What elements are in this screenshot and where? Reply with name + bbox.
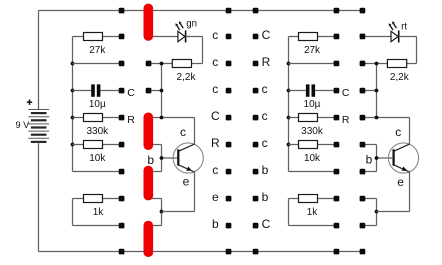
red jumper 1 (top rail to row1) (144, 4, 154, 41)
transistor left collector line (179, 144, 195, 151)
node label c middle-left row6 (212, 163, 218, 177)
node label R middle-right row2 (262, 55, 271, 69)
red jumper 4 (row8 to bottom rail) (144, 221, 154, 257)
resistor 27k right leads (289, 36, 337, 38)
transistor right label c (395, 125, 401, 139)
resistor 10k right body (299, 141, 318, 149)
pads column C (226, 8, 232, 255)
resistor 1k left bracket (73, 199, 122, 226)
svg-text:1k: 1k (307, 207, 319, 218)
resistor 1k right bracket (289, 199, 337, 226)
svg-text:c: c (212, 55, 218, 69)
node dot left emitter (160, 210, 164, 214)
capacitor 10µ left plates (91, 84, 100, 96)
resistor 1k left body (84, 195, 103, 203)
capacitor 10µ left value (89, 99, 106, 110)
wire left emitter lead (162, 172, 195, 212)
LED rt cathode bar (398, 31, 400, 43)
wire left bus vertical (72, 37, 74, 172)
pads column D (253, 8, 259, 255)
svg-text:e: e (212, 190, 219, 204)
wire left collector bracket (162, 64, 195, 144)
svg-text:R: R (262, 55, 271, 69)
node dot right base (375, 156, 379, 160)
wire right row3 pad stub (363, 90, 377, 92)
svg-text:2,2k: 2,2k (390, 72, 410, 83)
pads column F (360, 8, 366, 255)
wire LED gn cathode to corner (186, 37, 203, 64)
resistor 27k left body (84, 33, 103, 41)
node label C middle-left row4 (211, 109, 220, 123)
pads column A (119, 8, 125, 255)
node label C middle-right row8 (262, 217, 271, 231)
pads column B (146, 61, 152, 94)
svg-text:27k: 27k (304, 45, 321, 56)
svg-text:10k: 10k (89, 153, 106, 164)
transistor right body circle (388, 143, 418, 173)
wire left base bracket (149, 145, 162, 172)
svg-text:c: c (180, 125, 186, 139)
node label b middle-right row7 (262, 190, 269, 204)
wire right emitter lead (377, 172, 410, 212)
transistor right label b (366, 152, 373, 166)
capacitor 10µ right value (304, 99, 321, 110)
node label c middle-left row1 (212, 28, 218, 42)
node label R left circuit row4 (127, 114, 135, 126)
svg-text:e: e (397, 175, 404, 189)
wire right row4 pad stub (363, 117, 377, 119)
node label c middle-left row2 (212, 55, 218, 69)
svg-text:c: c (262, 109, 268, 123)
node dot left collector corner (160, 116, 164, 120)
node label b middle-left row8 (212, 217, 219, 231)
LED gn arrows (176, 21, 184, 30)
node dot left base (160, 156, 164, 160)
svg-text:2,2k: 2,2k (177, 72, 197, 83)
node dots on left bus (71, 62, 75, 147)
node label c middle-left row3 (212, 82, 218, 96)
svg-text:27k: 27k (89, 45, 106, 56)
resistor 330k right body (299, 114, 318, 122)
wire left row3 pad stub (149, 90, 162, 92)
resistor 1k right value (307, 207, 319, 218)
node label c middle-right row3 (262, 82, 268, 96)
transistor right base bar (393, 149, 395, 165)
node label R right circuit row4 (342, 114, 350, 126)
node label C middle-right row1 (262, 28, 271, 42)
svg-text:C: C (342, 87, 350, 99)
svg-text:C: C (262, 217, 271, 231)
svg-text:c: c (212, 163, 218, 177)
transistor left label b (147, 153, 154, 167)
wire right base bracket (363, 145, 377, 172)
svg-text:c: c (395, 125, 401, 139)
resistor 330k left body (84, 114, 103, 122)
LED rt triangle (391, 31, 398, 41)
transistor right label e (397, 175, 404, 189)
transistor left label e (183, 174, 190, 188)
node dot right collector row2 (375, 62, 379, 66)
svg-text:e: e (183, 174, 190, 188)
capacitor 10µ right plates (306, 84, 315, 96)
resistor 27k right body (299, 33, 318, 41)
wire left vertical (battery bottom lead) (38, 142, 40, 251)
wire pad to LED rt (363, 36, 392, 38)
resistor 2,2k right body (387, 60, 406, 68)
svg-text:c: c (212, 28, 218, 42)
resistor 10k left body (84, 141, 103, 149)
resistor 10k left leads (73, 144, 122, 146)
transistor left emitter line (179, 165, 195, 172)
resistor 1k left value (93, 207, 105, 218)
capacitor 10µ right leads (289, 90, 337, 92)
node dot right collector corner (375, 116, 379, 120)
svg-text:rt: rt (401, 21, 407, 32)
node dot left collector row2 (160, 62, 164, 66)
svg-text:R: R (127, 114, 135, 126)
resistor 2,2k right value (390, 72, 410, 83)
node label C right circuit row3 (342, 87, 350, 99)
svg-text:gn: gn (186, 19, 197, 30)
svg-text:c: c (212, 82, 218, 96)
transistor left label c (180, 125, 186, 139)
resistor 330k right value (301, 126, 324, 137)
node dots on right bus (287, 62, 291, 147)
svg-text:C: C (127, 87, 135, 99)
svg-text:b: b (262, 163, 269, 177)
svg-text:C: C (262, 28, 271, 42)
resistor 1k right body (299, 195, 318, 203)
wire left row4 stub to red jumper (149, 117, 162, 119)
svg-text:10µ: 10µ (89, 99, 106, 110)
resistor 330k left leads (73, 117, 122, 119)
wire left emitter bracket (149, 199, 162, 226)
wire red jumper to LED gn (149, 36, 178, 38)
LED gn cathode bar (185, 31, 187, 43)
node dot left collector row3 (160, 89, 164, 93)
wire right bus vertical (288, 37, 290, 172)
svg-text:R: R (342, 114, 350, 126)
resistor 330k right leads (289, 117, 337, 119)
transistor left base bar (177, 149, 179, 165)
wire right row6 bus to pad (289, 171, 337, 173)
resistor 27k left value (89, 45, 106, 56)
svg-text:9 V: 9 V (16, 120, 31, 130)
svg-text:C: C (211, 109, 220, 123)
wire right row2 bus to pad (289, 63, 337, 65)
LED rt label (401, 21, 407, 32)
capacitor 10µ left leads (73, 90, 122, 92)
resistor 27k right value (304, 45, 321, 56)
wire right collector bracket (377, 64, 410, 144)
transistor left body circle (173, 143, 203, 173)
battery plus label (27, 100, 32, 105)
transistor right collector line (394, 144, 410, 151)
svg-text:b: b (212, 217, 219, 231)
resistor 10k right value (304, 153, 321, 164)
node label C left circuit row3 (127, 87, 135, 99)
transistor right emitter line (394, 165, 410, 172)
pads column E (334, 8, 340, 255)
svg-text:1k: 1k (93, 207, 105, 218)
node label R middle-left row5 (211, 136, 220, 150)
node label c middle-right row4 (262, 109, 268, 123)
wire left row2 bus to pad (73, 63, 122, 65)
svg-text:b: b (262, 190, 269, 204)
resistor 2,2k left body (172, 60, 191, 68)
svg-text:c: c (262, 82, 268, 96)
svg-text:R: R (211, 136, 220, 150)
svg-text:10µ: 10µ (304, 99, 321, 110)
resistor 10k left value (89, 153, 106, 164)
LED rt arrows (389, 21, 397, 30)
svg-text:330k: 330k (301, 126, 324, 137)
resistor 330k left value (86, 126, 109, 137)
node dot right collector row3 (375, 89, 379, 93)
node dot right emitter (375, 210, 379, 214)
svg-text:c: c (262, 136, 268, 150)
wire LED rt cathode to corner (399, 37, 417, 64)
battery value 9 V (16, 120, 31, 130)
wire bottom rail (39, 251, 363, 253)
wire left base lead (162, 157, 178, 159)
LED gn label (186, 19, 197, 30)
svg-text:10k: 10k (304, 153, 321, 164)
battery 9V plates (28, 110, 49, 142)
node label e middle-left row7 (212, 190, 219, 204)
node label b middle-right row6 (262, 163, 269, 177)
svg-text:b: b (147, 153, 154, 167)
resistor 2,2k left value (177, 72, 197, 83)
wire right base lead (377, 157, 393, 159)
resistor 27k left leads (73, 36, 122, 38)
red jumper 2 (row4 to row5) (144, 113, 154, 151)
red jumper 3 (row6 to row7) (144, 166, 154, 201)
node label c middle-right row5 (262, 136, 268, 150)
resistor 2,2k left leads (149, 63, 203, 65)
wire right emitter bracket (363, 199, 377, 226)
wire top rail (39, 10, 363, 12)
svg-text:330k: 330k (86, 126, 109, 137)
wire left row6 bus to pad (73, 171, 122, 173)
wire left vertical (battery top lead) (38, 11, 40, 110)
svg-text:b: b (366, 152, 373, 166)
resistor 2,2k right leads (363, 63, 417, 65)
resistor 10k right leads (289, 144, 337, 146)
LED gn triangle (178, 31, 185, 41)
